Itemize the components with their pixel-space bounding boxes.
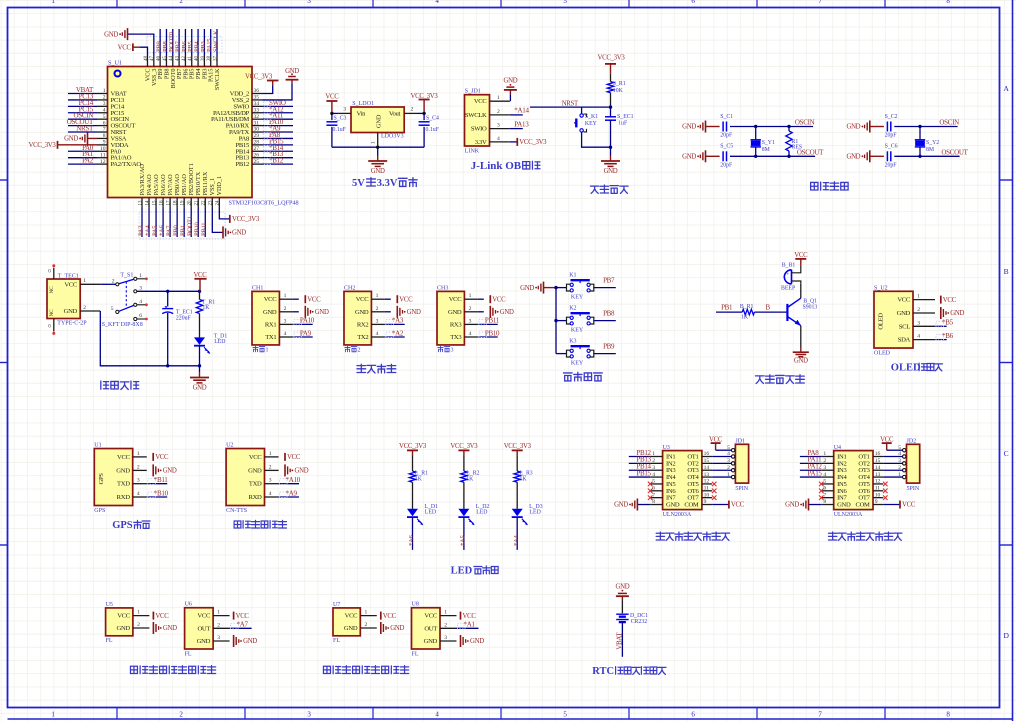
svg-text:4: 4 bbox=[652, 472, 655, 478]
svg-text:1K: 1K bbox=[520, 477, 528, 483]
svg-text:U3: U3 bbox=[663, 445, 670, 451]
crystal S_Y2 8M bbox=[919, 127, 921, 140]
wire net *A5 bbox=[463, 518, 465, 550]
svg-text:GND: GND bbox=[448, 309, 462, 316]
U3 pin 6 IN6 bbox=[650, 490, 662, 492]
connector U7 body bbox=[333, 608, 360, 636]
resistor B_R1 1K bbox=[742, 309, 754, 315]
svg-text:CH2: CH2 bbox=[344, 285, 355, 291]
S_JD1 pin 3 SWIO bbox=[490, 128, 510, 130]
wire OSCOUT bbox=[730, 155, 815, 157]
no-connect U3 pin 12 bbox=[712, 482, 717, 487]
U1 pin 30 PA9/TX bbox=[252, 131, 263, 133]
title IR switch module 2 bbox=[323, 666, 330, 673]
svg-text:SWCLK: SWCLK bbox=[214, 68, 221, 90]
svg-text:OLED: OLED bbox=[878, 313, 885, 330]
diode L_D3 LED bbox=[516, 482, 518, 509]
svg-text:PB0: PB0 bbox=[173, 225, 180, 236]
svg-text:ULN2003A: ULN2003A bbox=[834, 512, 863, 518]
svg-text:3: 3 bbox=[376, 318, 379, 324]
connector CH1 body bbox=[252, 291, 279, 345]
svg-text:VCC: VCC bbox=[117, 454, 131, 461]
U4 pin 8 GND bbox=[821, 504, 833, 506]
svg-text:PA10: PA10 bbox=[300, 317, 315, 325]
svg-text:TXD: TXD bbox=[249, 481, 262, 488]
wire net PA1 bbox=[68, 157, 97, 159]
svg-text:20pF: 20pF bbox=[885, 162, 898, 168]
wire net PB7 bbox=[178, 29, 180, 56]
wire U3 OT4 to JD1 bbox=[712, 476, 731, 478]
svg-text:VCC: VCC bbox=[794, 252, 808, 259]
svg-text:VCC: VCC bbox=[264, 296, 278, 303]
S_JD1 pin 4 3.3V bbox=[490, 141, 510, 143]
U4 pin 15 OT2 bbox=[873, 462, 883, 464]
svg-text:KEY: KEY bbox=[571, 361, 584, 367]
CH2 pin 3 RX2 bbox=[371, 323, 385, 325]
svg-text:9: 9 bbox=[103, 140, 106, 146]
svg-text:COM: COM bbox=[684, 502, 699, 509]
svg-text:RXD: RXD bbox=[117, 494, 131, 501]
svg-text:PA2/TX/AO: PA2/TX/AO bbox=[111, 161, 142, 168]
node junction NRST bbox=[609, 105, 612, 108]
wire net *A4 bbox=[148, 209, 150, 238]
svg-text:TX3: TX3 bbox=[450, 334, 462, 341]
svg-text:PB12: PB12 bbox=[236, 161, 249, 168]
U1 pin 40 PB4 bbox=[197, 56, 199, 67]
svg-text:VCC: VCC bbox=[345, 613, 359, 620]
U5 pin 2 GND bbox=[133, 627, 150, 629]
svg-text:3.3V: 3.3V bbox=[377, 178, 398, 189]
svg-text:GND: GND bbox=[520, 285, 534, 292]
title IR switch module 1 bbox=[130, 666, 137, 673]
svg-text:U4: U4 bbox=[834, 445, 841, 451]
svg-text:3: 3 bbox=[343, 106, 346, 112]
wire net *A7 bbox=[230, 627, 252, 629]
U6 pin 2 OUT bbox=[213, 627, 230, 629]
wire NRST bbox=[530, 106, 611, 108]
ground at S_U2 pin 2 bbox=[940, 307, 942, 319]
U1 pin 22 PB11/RX bbox=[204, 198, 206, 209]
svg-text:PA13: PA13 bbox=[514, 120, 529, 128]
svg-text:K3: K3 bbox=[569, 338, 576, 344]
ground power circuit bbox=[199, 366, 201, 372]
ground LDO circuit bbox=[377, 147, 379, 155]
wire net PB7 bbox=[594, 287, 616, 289]
title buzzer circuit bbox=[755, 376, 764, 384]
power VCC_3V3 at U1 pin 9 VDDA bbox=[58, 144, 98, 146]
svg-text:5V: 5V bbox=[352, 178, 365, 189]
svg-text:VCC: VCC bbox=[474, 98, 488, 105]
svg-text:4: 4 bbox=[469, 331, 472, 337]
svg-text:0.1uF: 0.1uF bbox=[333, 127, 347, 133]
svg-text:0.1uF: 0.1uF bbox=[426, 127, 440, 133]
U4 pin 10 OT7 bbox=[873, 497, 883, 499]
wire net PA0 bbox=[68, 150, 97, 152]
svg-text:GPS: GPS bbox=[98, 473, 105, 485]
JD2 pin 5 bbox=[903, 449, 906, 452]
svg-text:GND: GND bbox=[163, 468, 177, 475]
svg-text:GND: GND bbox=[376, 114, 383, 128]
svg-text:GND: GND bbox=[604, 168, 618, 175]
svg-text:GND: GND bbox=[897, 310, 911, 317]
svg-text:10K: 10K bbox=[613, 88, 624, 94]
wire net PA10 bbox=[293, 323, 313, 325]
wire net PB6 bbox=[184, 29, 186, 56]
svg-text:*A4: *A4 bbox=[513, 535, 520, 546]
svg-text:1: 1 bbox=[103, 88, 106, 94]
svg-text:3: 3 bbox=[823, 465, 826, 471]
wire net PB10 bbox=[478, 336, 498, 338]
svg-text:S_K1: S_K1 bbox=[585, 114, 598, 120]
U1 pin 19 PB1/AO bbox=[183, 198, 185, 209]
CH3 pin 4 TX3 bbox=[464, 336, 478, 338]
capacitor T_EC1 220uF bbox=[167, 291, 169, 306]
svg-text:3: 3 bbox=[269, 478, 272, 484]
U1 pin 23 VSS_1 bbox=[211, 198, 213, 209]
U1 pin 37 SWCLK bbox=[216, 56, 218, 67]
svg-text:OUT: OUT bbox=[424, 625, 437, 632]
U1 pin 21 PB10/TX bbox=[197, 198, 199, 209]
svg-text:K2: K2 bbox=[569, 305, 576, 311]
ground at U1 pin 8 VSSA bbox=[88, 137, 98, 139]
title power circuit bbox=[101, 381, 109, 389]
svg-text:41: 41 bbox=[188, 56, 193, 62]
svg-text:2: 2 bbox=[444, 622, 447, 628]
svg-text:37: 37 bbox=[213, 56, 218, 62]
wire net PA5 bbox=[155, 209, 157, 238]
JD1 pin 5 bbox=[731, 449, 734, 452]
svg-text:*B10: *B10 bbox=[154, 489, 169, 497]
svg-text:1K: 1K bbox=[415, 477, 423, 483]
wire gnd to battery bbox=[621, 600, 623, 613]
wire net PB14 bbox=[629, 469, 650, 471]
svg-text:2: 2 bbox=[103, 95, 106, 101]
svg-text:FL: FL bbox=[106, 638, 113, 644]
svg-text:*A1: *A1 bbox=[464, 621, 476, 629]
svg-text:RXD: RXD bbox=[248, 494, 262, 501]
svg-text:LDO3V3: LDO3V3 bbox=[381, 134, 404, 140]
svg-text:ULN2003A: ULN2003A bbox=[663, 512, 692, 518]
svg-text:U2: U2 bbox=[226, 443, 233, 449]
svg-text:VCC_3V3: VCC_3V3 bbox=[29, 142, 57, 149]
svg-text:VCC: VCC bbox=[897, 297, 911, 304]
wire net B bbox=[754, 311, 786, 313]
svg-text:GND: GND bbox=[371, 168, 385, 175]
wire net *A4 bbox=[516, 518, 518, 550]
U3 pin 3 IN3 bbox=[650, 469, 662, 471]
S_U2 pin 2 GND bbox=[913, 312, 935, 314]
ground at S_C2 bbox=[869, 121, 871, 133]
ground at U3 pin 8 bbox=[637, 504, 650, 506]
svg-text:GPS: GPS bbox=[112, 520, 133, 531]
U4 pin 5 IN5 bbox=[821, 483, 833, 485]
wire U3 OT2 to JD1 bbox=[712, 462, 731, 464]
svg-text:11: 11 bbox=[100, 152, 106, 158]
svg-text:GND: GND bbox=[503, 77, 517, 84]
power VCC_3V3 at U1 pin 24 VDD_1 bbox=[219, 209, 229, 219]
svg-text:CR232: CR232 bbox=[631, 619, 648, 625]
CH1 pin 4 TX1 bbox=[279, 336, 293, 338]
wire net PB3 bbox=[203, 29, 205, 56]
svg-text:COM: COM bbox=[855, 502, 870, 509]
svg-text:GND: GND bbox=[424, 638, 438, 645]
svg-text:S_Y2: S_Y2 bbox=[926, 140, 939, 146]
U8 pin 2 OUT bbox=[440, 627, 457, 629]
power VCC at U1 pin 48 bbox=[139, 47, 147, 55]
U1 pin 4 PC15 bbox=[97, 112, 108, 114]
svg-text:1: 1 bbox=[365, 610, 368, 616]
svg-text:8: 8 bbox=[823, 499, 826, 505]
svg-text:PA5/AO: PA5/AO bbox=[153, 174, 160, 196]
svg-text:2: 2 bbox=[217, 622, 220, 628]
U1 pin 36 VDD_2 bbox=[252, 93, 263, 95]
JD2 pin 4 bbox=[903, 455, 906, 458]
svg-text:U8: U8 bbox=[412, 602, 419, 608]
CH1 pin 3 RX1 bbox=[279, 323, 293, 325]
U1 pin 9 VDDA bbox=[97, 144, 108, 146]
U1 pin 34 SWIO bbox=[252, 105, 263, 107]
svg-text:16: 16 bbox=[875, 451, 881, 457]
diode L_D1 LED bbox=[412, 482, 414, 509]
svg-text:RX2: RX2 bbox=[357, 321, 369, 328]
svg-text:Vout: Vout bbox=[389, 111, 401, 118]
U6 pin 1 VCC bbox=[213, 615, 230, 617]
svg-text:13: 13 bbox=[138, 200, 143, 206]
svg-text:20pF: 20pF bbox=[720, 133, 733, 139]
U1 pin 16 PA6/AO bbox=[162, 198, 164, 209]
connector JD1 5PIN body bbox=[735, 444, 748, 483]
svg-text:2: 2 bbox=[112, 278, 115, 284]
svg-text:21: 21 bbox=[195, 200, 200, 206]
connector S_JD1 LINK body bbox=[465, 95, 490, 146]
wire net PA10 bbox=[263, 125, 294, 127]
wire net PB1 bbox=[716, 311, 742, 313]
svg-text:7: 7 bbox=[823, 492, 826, 498]
U5 pin 1 VCC bbox=[133, 615, 150, 617]
ground at CH2 pin 2 bbox=[385, 311, 391, 313]
wire net PA15 bbox=[800, 476, 821, 478]
wire net PB11 bbox=[478, 323, 498, 325]
svg-text:10: 10 bbox=[704, 492, 710, 498]
svg-text:U6: U6 bbox=[185, 602, 192, 608]
U7 pin 2 GND bbox=[360, 627, 377, 629]
title crystal circuit bbox=[811, 182, 818, 190]
driver U3 ULN2003A body bbox=[663, 451, 702, 510]
svg-text:2: 2 bbox=[823, 458, 826, 464]
svg-text:VCC: VCC bbox=[356, 296, 370, 303]
U1 pin 45 PB8 bbox=[165, 56, 167, 67]
svg-text:GND: GND bbox=[263, 309, 277, 316]
svg-text:6: 6 bbox=[103, 120, 106, 126]
wire OSCOUT bbox=[894, 155, 959, 157]
svg-text:GND: GND bbox=[666, 502, 680, 509]
svg-text:1: 1 bbox=[917, 294, 920, 300]
svg-text:OLED: OLED bbox=[891, 363, 921, 374]
JD1 pin 4 bbox=[731, 455, 734, 458]
svg-text:S_C4: S_C4 bbox=[426, 116, 439, 122]
U1 pin 27 PB14 bbox=[252, 150, 263, 152]
svg-text:PB1/AO: PB1/AO bbox=[181, 174, 188, 196]
svg-text:10: 10 bbox=[875, 492, 881, 498]
ground at S_C6 bbox=[869, 150, 871, 162]
wire net BOOT0 bbox=[172, 29, 174, 56]
no-connect U3 pin 5 bbox=[648, 482, 653, 487]
U2 pin 3 TXD bbox=[265, 483, 279, 485]
svg-text:S_U1: S_U1 bbox=[108, 60, 122, 67]
U1 pin 3 TXD bbox=[133, 483, 147, 485]
wire LED to ground rail bbox=[199, 347, 201, 366]
connector T_TEC1 TYPE-C-2P body bbox=[47, 279, 80, 319]
svg-text:GND: GND bbox=[104, 31, 118, 38]
U1 pin 7 NRST bbox=[97, 131, 108, 133]
svg-text:FL: FL bbox=[185, 651, 192, 657]
capacitor S_C3 0.1uF bbox=[331, 113, 333, 120]
ground at U1 pin 23 VSS_1 bbox=[212, 209, 223, 233]
resistor L_R1 1K bbox=[412, 456, 414, 471]
svg-text:GND: GND bbox=[785, 502, 799, 509]
svg-text:2: 2 bbox=[137, 622, 140, 628]
U1 top pins dashed mask bbox=[147, 37, 222, 53]
svg-text:T_S1: T_S1 bbox=[120, 273, 133, 279]
svg-text:LED: LED bbox=[530, 510, 541, 516]
svg-text:GND: GND bbox=[315, 309, 329, 316]
svg-text:B: B bbox=[1004, 267, 1009, 276]
svg-text:GND: GND bbox=[117, 625, 131, 632]
svg-text:VCC_3V3: VCC_3V3 bbox=[519, 139, 547, 146]
svg-text:L_R1: L_R1 bbox=[415, 471, 428, 477]
svg-text:JD2: JD2 bbox=[907, 439, 917, 445]
svg-text:SDA: SDA bbox=[898, 337, 911, 344]
svg-text:1: 1 bbox=[83, 278, 86, 284]
svg-text:GND: GND bbox=[390, 625, 404, 632]
svg-text:1: 1 bbox=[652, 451, 655, 457]
svg-text:*A9: *A9 bbox=[286, 489, 298, 497]
wire net OSCIN bbox=[68, 118, 97, 120]
capacitor S_C2 20pF bbox=[886, 122, 888, 132]
connector U8 body bbox=[412, 608, 441, 649]
svg-text:44: 44 bbox=[169, 56, 174, 62]
svg-text:GND: GND bbox=[344, 625, 358, 632]
svg-text:8: 8 bbox=[652, 499, 655, 505]
svg-text:1: 1 bbox=[284, 293, 287, 299]
U1 pin 5 OSCIN bbox=[97, 118, 108, 120]
svg-text:2: 2 bbox=[269, 464, 272, 470]
svg-text:S_C6: S_C6 bbox=[885, 144, 898, 150]
svg-text:VCC: VCC bbox=[449, 296, 463, 303]
svg-text:12: 12 bbox=[100, 159, 106, 165]
svg-text:LED: LED bbox=[476, 510, 487, 516]
svg-text:4: 4 bbox=[139, 299, 142, 305]
svg-text:B_B1: B_B1 bbox=[782, 262, 796, 268]
U3 pin 11 OT6 bbox=[702, 490, 712, 492]
title stepper motor 1 bbox=[656, 532, 664, 540]
svg-text:Vin: Vin bbox=[357, 111, 367, 118]
svg-text:S_C5: S_C5 bbox=[720, 144, 733, 150]
ground at U4 pin 8 bbox=[809, 504, 822, 506]
svg-text:14: 14 bbox=[704, 465, 710, 471]
svg-text:3: 3 bbox=[444, 635, 447, 641]
svg-text:PA3: PA3 bbox=[137, 225, 144, 236]
wire net PB5 bbox=[191, 29, 193, 56]
wire net *B12 bbox=[263, 163, 294, 165]
U1 pin 4 RXD bbox=[133, 496, 147, 498]
wire net PA8 bbox=[800, 456, 821, 458]
wire key common trunk bbox=[555, 288, 557, 354]
power VCC at U1 pin 1 bbox=[152, 453, 154, 461]
svg-text:PB11: PB11 bbox=[201, 223, 208, 236]
wire net PA8 bbox=[263, 137, 294, 139]
svg-text:48: 48 bbox=[144, 56, 149, 62]
svg-text:D_DC1: D_DC1 bbox=[630, 613, 648, 619]
resistor L_R3 1K bbox=[516, 456, 518, 471]
wire net *A10 bbox=[279, 483, 299, 485]
svg-text:SCL: SCL bbox=[899, 323, 910, 330]
capacitor S_C5 20pF bbox=[722, 151, 724, 161]
wire to key switch bbox=[581, 107, 583, 113]
U4 pin 6 IN6 bbox=[821, 490, 833, 492]
diode L_D2 LED bbox=[463, 482, 465, 509]
svg-text:RX1: RX1 bbox=[265, 321, 277, 328]
svg-text:36: 36 bbox=[254, 88, 260, 94]
svg-text:3: 3 bbox=[451, 348, 454, 354]
wire net PC14 bbox=[68, 105, 97, 107]
svg-text:S_EC1: S_EC1 bbox=[617, 114, 634, 120]
wire to K3 bbox=[556, 353, 567, 355]
svg-text:5: 5 bbox=[103, 114, 106, 120]
svg-text:NRST: NRST bbox=[76, 125, 94, 133]
resistor T_R1 1K bbox=[199, 291, 201, 299]
svg-text:8: 8 bbox=[103, 133, 106, 139]
wire net *B10 bbox=[147, 496, 167, 498]
no-connect U4 pin 5 bbox=[819, 482, 824, 487]
svg-text:VCC: VCC bbox=[118, 44, 132, 51]
U4 pin 4 IN4 bbox=[821, 476, 833, 478]
U1 pin 2 GND bbox=[133, 469, 147, 471]
svg-text:GND: GND bbox=[116, 467, 130, 474]
U4 pin 14 OT3 bbox=[873, 469, 883, 471]
svg-text:VCC_3V3: VCC_3V3 bbox=[232, 216, 260, 223]
svg-text:S_JD1: S_JD1 bbox=[465, 88, 481, 94]
U4 pin 13 OT4 bbox=[873, 476, 883, 478]
U3 pin 15 OT2 bbox=[702, 462, 712, 464]
JD1 pin 3 bbox=[731, 462, 734, 465]
ground at CH1 pin 2 bbox=[293, 311, 299, 313]
svg-text:VDD_1: VDD_1 bbox=[216, 176, 223, 196]
diode T_D1 LED bbox=[199, 314, 201, 338]
svg-text:B: B bbox=[766, 304, 771, 312]
svg-text:S_Y1: S_Y1 bbox=[762, 140, 775, 146]
svg-text:PA15: PA15 bbox=[808, 469, 823, 477]
U1 pin 43 PB7 bbox=[178, 56, 180, 67]
svg-text:38: 38 bbox=[207, 56, 212, 62]
svg-text:BOOT1: BOOT1 bbox=[187, 216, 194, 236]
svg-text:PB15: PB15 bbox=[636, 469, 651, 477]
svg-text:27: 27 bbox=[254, 146, 260, 152]
svg-text:34: 34 bbox=[254, 101, 260, 107]
svg-text:S_LDO1: S_LDO1 bbox=[352, 101, 374, 107]
JD1 pin 2 bbox=[731, 469, 734, 472]
power VCC at S_U2 pin 1 bbox=[940, 296, 942, 304]
wire collector bbox=[800, 283, 802, 298]
wire net PA9 bbox=[293, 336, 313, 338]
wire net PA13 bbox=[510, 128, 523, 130]
svg-text:GND: GND bbox=[243, 638, 257, 645]
svg-text:KEY: KEY bbox=[585, 121, 598, 127]
buzzer B_B1 BEEP bbox=[784, 270, 791, 284]
U1 pin 48 VCC bbox=[147, 56, 149, 67]
U2 pin 4 RXD bbox=[265, 496, 279, 498]
svg-text:S_C3: S_C3 bbox=[334, 116, 347, 122]
